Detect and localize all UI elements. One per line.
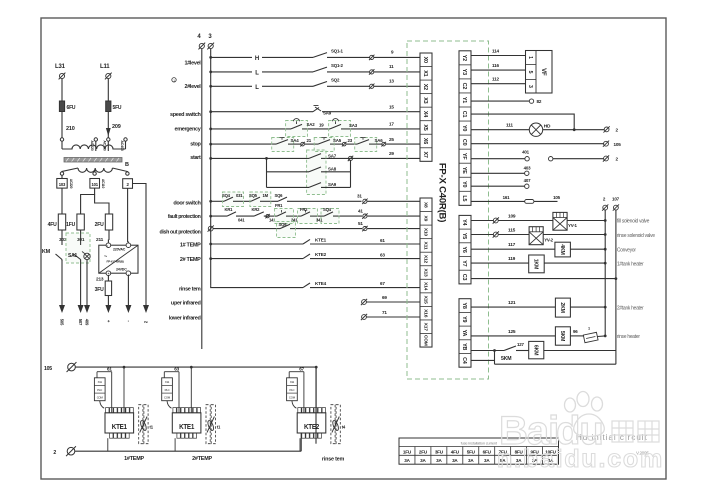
wire rail 105 [75,366,316,368]
svg-text:2#TEMP: 2#TEMP [192,456,212,462]
svg-text:11: 11 [389,64,394,69]
svg-text:21: 21 [307,138,312,143]
wire 6KM to rail 107 [544,350,616,352]
svg-text:23: 23 [348,138,353,143]
svg-text:107: 107 [612,197,620,202]
svg-text:COM: COM [97,396,104,400]
svg-text:X11: X11 [422,242,428,250]
wire row 109 [471,220,493,222]
wire YF row 401 [471,158,525,160]
arrow terminal plus [105,305,111,313]
svg-text:1#tank heater: 1#tank heater [617,261,644,267]
svg-text:25: 25 [389,137,394,142]
wire row KTE4 [211,286,420,288]
wire row lower infrared [366,316,420,318]
arrow terminal 2 [143,305,149,313]
svg-text:rinse heater: rinse heater [617,334,640,340]
svg-text:Y6: Y6 [461,247,467,253]
contact 5KM aux [504,346,516,351]
svg-text:SQ1-1: SQ1-1 [331,49,343,54]
svg-text:6KM: 6KM [532,345,538,355]
svg-text:AC110: AC110 [101,179,105,189]
svg-text:KM: KM [42,249,51,255]
wire row 115 [471,234,493,236]
button SA6 highlight [355,138,377,152]
wire minus to arrow [127,276,129,306]
wire node 303 [61,230,63,245]
svg-text:X15: X15 [422,296,428,305]
wire 116 to VF [471,69,526,71]
wire row KTE2 [209,257,212,260]
svg-text:161: 161 [503,195,510,200]
svg-text:X11: X11 [165,380,170,384]
lamp HD [529,123,542,136]
svg-text:041: 041 [238,218,245,223]
wire 111 lamp row [471,129,529,131]
svg-text:51: 51 [358,221,363,226]
svg-text:YV-1: YV-1 [568,223,577,228]
wire rail drop KTE2 [315,367,317,413]
svg-text:103: 103 [59,182,66,187]
svg-text:L5: L5 [461,195,467,201]
svg-text:X17: X17 [422,323,428,332]
wire KTE2 to rail 2 [299,438,301,451]
svg-text:KTE1: KTE1 [315,238,327,243]
svg-text:X16: X16 [422,309,428,318]
svg-text:X14: X14 [422,282,428,291]
watermark jingyan characters [612,421,659,442]
svg-text:105: 105 [614,142,622,147]
svg-text:220VAC: 220VAC [113,248,126,252]
svg-text:1#level: 1#level [184,60,201,66]
svg-text:door switch: door switch [173,200,201,206]
switch SQ9 [280,224,290,228]
svg-text:61: 61 [107,366,112,371]
svg-text:H: H [255,56,259,62]
svg-text:2#tank heater: 2#tank heater [617,305,644,311]
wire loop left vertical [494,351,496,365]
switch SQ5 door [251,197,260,201]
PLC terminal connector 63 [162,378,173,401]
svg-text:uper infrared: uper infrared [171,300,201,306]
wire 67 hookup [289,371,304,373]
wire node 213 [107,276,109,282]
svg-text:speed switch: speed switch [170,112,201,118]
svg-text:emergency: emergency [174,126,201,132]
svg-text:3A: 3A [436,458,442,463]
svg-text:3FU: 3FU [95,287,104,293]
svg-text:SQ6: SQ6 [275,193,284,198]
svg-text:19: 19 [319,123,324,128]
svg-text:17: 17 [389,122,394,127]
terminal 23 [342,142,347,147]
thermal contact FR1 [277,212,286,216]
svg-text:13: 13 [389,79,394,84]
solenoid valve YV-2 [529,227,543,245]
svg-text:61: 61 [380,238,385,243]
svg-text:2: 2 [53,450,56,456]
svg-text:101: 101 [92,182,99,187]
svg-text:C4: C4 [461,357,467,364]
fuse 6FU [59,101,64,112]
thermistor probe KTE2 [331,405,335,444]
wire row 127 YB [471,350,504,352]
svg-text:407: 407 [524,178,531,183]
svg-text:X12: X12 [422,255,428,264]
wire C0 row 105 [471,143,604,145]
svg-text:3A: 3A [468,458,474,463]
svg-text:n.baidu.com: n.baidu.com [497,445,664,473]
svg-text:114: 114 [492,49,499,54]
terminal 51 [362,226,367,231]
svg-text:507: 507 [78,319,83,326]
switch SQ4 fault [324,212,333,216]
transformer B core [64,158,122,163]
button SA7 [309,154,321,159]
wire KM to arrow 505 [61,260,63,306]
svg-text:X9: X9 [422,216,428,222]
svg-text:L11: L11 [100,64,110,70]
arrow terminal 409 [84,305,90,313]
terminal on bus dish out [208,225,214,231]
svg-text:FP-X C40R(B): FP-X C40R(B) [107,260,124,264]
svg-text:YE: YE [461,167,467,174]
svg-text:Conveyor: Conveyor [617,247,636,253]
terminal mid fault [265,214,269,218]
thermal contact FR2 highlight [298,209,318,224]
svg-text:VF: VF [540,68,546,76]
svg-text:31: 31 [357,194,362,199]
svg-text:4KM: 4KM [559,244,565,254]
svg-text:SQ4: SQ4 [222,193,231,198]
wire row 121 [471,306,555,308]
svg-text:505: 505 [60,319,65,326]
terminal 9 [369,55,374,60]
svg-text:2KM: 2KM [559,302,565,312]
svg-text:KTE1: KTE1 [179,424,195,431]
wire node 209 with arrow [107,112,109,139]
switch SQ6 door [278,197,287,201]
svg-text:SQ5: SQ5 [249,193,258,198]
svg-text:5KM: 5KM [501,356,511,362]
button SA4 highlight [272,138,294,152]
svg-text:1: 1 [527,56,533,59]
svg-text:6FU: 6FU [483,449,492,454]
svg-text:409: 409 [85,319,90,326]
wire node 301 [80,230,82,245]
wire 63 hookup [164,371,179,373]
svg-text:1FU: 1FU [403,449,412,454]
contact KTE4 [303,283,310,288]
wire lamp to terminal 2a [543,129,604,131]
PLC terminal connector 61 [94,378,105,401]
wire row start [209,157,212,160]
svg-text:Y9: Y9 [461,316,467,322]
wire row stop [209,143,212,146]
svg-text:3A: 3A [420,458,426,463]
svg-text:3: 3 [527,85,533,88]
contactor coil 2KM [555,298,570,317]
svg-text:FP-X C40R(B): FP-X C40R(B) [437,163,448,222]
contactor coil 4KM [555,242,571,257]
svg-text:1M: 1M [263,193,269,198]
wire row dish out [213,228,280,230]
svg-text:PLC: PLC [97,388,102,392]
svg-text:2#level: 2#level [184,84,201,90]
svg-text:67: 67 [380,281,385,286]
svg-text:5FU: 5FU [467,449,476,454]
svg-text:X1: X1 [422,70,428,76]
svg-text:3A: 3A [404,458,410,463]
wire rail 2 rise right [300,433,302,451]
svg-text:82: 82 [537,99,542,104]
svg-text:Y0: Y0 [461,181,467,187]
fuse 3FU [105,281,111,296]
terminal Y5 output [493,231,499,237]
wire row H SQ1-1 [209,56,212,59]
thermal contact FR1 highlight [275,209,294,224]
svg-text:5: 5 [527,71,533,74]
svg-text:FR2: FR2 [300,207,308,212]
wire L5 row 161-105 [471,200,525,202]
wire 3FU to arrow plus [107,296,109,306]
thermistor probe KTE1 [139,405,143,444]
svg-text:SQ1-2: SQ1-2 [331,63,343,68]
contact hook 63 [167,401,172,409]
svg-text:X3: X3 [422,97,428,103]
svg-text:SA7: SA7 [328,154,337,159]
wire row emergency [209,127,212,130]
PLC output terminals Y8-C4 [459,299,471,368]
wire rail drop KTE1 [123,367,125,413]
svg-text:L: L [255,85,259,91]
svg-text:PLC: PLC [289,388,294,392]
svg-text:2FU: 2FU [419,449,428,454]
watermark baidu logo text [499,409,603,453]
wire 103 to 4FU [61,175,63,178]
svg-text:fill solenoid valve: fill solenoid valve [617,219,650,225]
contactor coil 1KM [529,255,545,273]
button SA5 [318,140,330,145]
wire row KTE1 [209,243,212,246]
button SA3 highlight [329,121,351,137]
switch SQ9 highlight [277,222,296,238]
svg-text:KTE2: KTE2 [304,424,320,431]
svg-text:PLC: PLC [165,388,170,392]
terminal box 101 AC110 [90,179,100,189]
svg-text:Y2: Y2 [461,55,467,61]
terminal 71 start [361,314,367,320]
svg-text:SA1: SA1 [68,253,78,259]
svg-text:SQ2: SQ2 [331,78,340,83]
svg-text:210: 210 [66,126,75,132]
svg-text:X11: X11 [98,380,103,384]
switch SQ1-1 [313,53,327,58]
svg-text:SA8: SA8 [328,167,337,172]
wire loop bottom [495,363,616,365]
svg-text:YA: YA [461,330,467,337]
svg-text:SQ9: SQ9 [279,222,288,227]
svg-text:3FU: 3FU [435,449,444,454]
terminal 13 [369,84,374,89]
button SA2 [291,124,302,128]
button SA4 [276,140,288,145]
svg-text:2# TEMP: 2# TEMP [180,257,201,263]
wire KTE1 to rail 2 [174,438,176,451]
svg-text:C2: C2 [461,83,467,90]
wire bus 3 [210,49,212,286]
svg-text:X5: X5 [422,124,428,130]
svg-text:rinse tem: rinse tem [322,457,345,463]
svg-text:121: 121 [508,300,516,306]
svg-text:1# TEMP: 1# TEMP [180,242,201,248]
fuse 2FU [105,214,112,230]
wire row L SQ2 [209,85,212,88]
svg-text:1FU: 1FU [66,222,75,228]
wire box2 to PLC supply [127,188,129,242]
fuse 5FU [107,79,109,101]
terminal 105a [603,141,609,147]
wire C1 elbow [471,114,574,130]
svg-text:C1: C1 [461,111,467,118]
svg-text:Y3: Y3 [461,69,467,75]
svg-text:X2: X2 [422,84,428,90]
svg-text:67: 67 [299,366,304,371]
transformer B secondary winding [78,168,112,172]
switch SQ1-2 [313,67,327,72]
button SA3 [330,124,341,128]
svg-text:127: 127 [517,342,524,347]
svg-text:5KM: 5KM [559,331,565,341]
svg-text:1: 1 [588,327,590,331]
selector switch SA9 speed [313,107,321,112]
svg-text:3A: 3A [484,458,490,463]
terminal box 2 [123,179,133,189]
wire branch left [266,158,268,187]
svg-text:63: 63 [174,366,179,371]
svg-text:105: 105 [553,195,560,200]
svg-text:Y1: Y1 [461,97,467,103]
wire rail 2 vertical [604,210,606,336]
svg-text:Y5: Y5 [461,233,467,239]
svg-text:125: 125 [508,329,516,335]
PLC output terminals Y4-C3 [459,215,471,284]
svg-text:2FU: 2FU [95,222,104,228]
wire 115 to rail [543,234,605,236]
wire 119 to rail [544,262,605,264]
wire 112 to VF [471,83,526,85]
svg-text:YB: YB [461,343,467,350]
svg-text:209: 209 [112,124,121,130]
svg-text:KR1: KR1 [225,207,234,212]
svg-text:SA3: SA3 [349,123,358,128]
start branch highlight [307,150,326,195]
wire row L SQ1-2 [209,71,212,74]
svg-text:15: 15 [389,105,394,110]
svg-text:63: 63 [380,253,385,258]
arrow terminal 505 [59,305,65,313]
svg-text:B: B [125,162,129,168]
terminal 11 [369,69,374,74]
svg-text:X11: X11 [290,380,295,384]
contact KTE2 [303,254,310,259]
svg-text:KR2: KR2 [252,207,261,212]
svg-text:KTE1: KTE1 [112,424,128,431]
wire row 119 [471,262,529,264]
svg-text:Y7: Y7 [461,260,467,266]
wire SA9 branch [267,186,310,188]
svg-text:1#TEMP: 1#TEMP [124,456,144,462]
svg-text:SQ4: SQ4 [323,207,332,212]
svg-text:YF: YF [461,153,467,160]
wire rail drop KTE1 [190,367,192,413]
svg-text:stop: stop [190,141,201,147]
fuse 4FU [58,214,65,230]
svg-text:X4: X4 [422,111,428,117]
svg-text:X8: X8 [422,202,428,208]
terminal 2b [603,155,609,161]
svg-text:Y4: Y4 [461,219,467,225]
PLC terminal connector 67 [287,378,298,401]
wire L31 to fuse 6FU [61,79,63,101]
door switches highlight [222,192,243,207]
wire row upper infrared [366,301,420,303]
svg-text:FR1: FR1 [275,203,283,208]
contact hook 67 [292,401,297,409]
wire C4 stub [471,359,495,361]
contactor coil 6KM [516,350,529,352]
row label 2#level [172,78,176,82]
svg-text:109: 109 [508,214,516,220]
wire 109 to rail [567,220,605,222]
arrow terminal 507 [78,305,84,313]
contact SA8 [309,167,321,172]
PLC power supply unit FP-X C40R(B) [99,245,138,273]
svg-text:HD: HD [544,124,551,130]
thermal contact FR2 [301,212,310,216]
switch SA1 highlight [66,233,90,263]
contact SA9 [309,183,321,188]
svg-text:C0: C0 [461,139,467,146]
wire rail 107 vertical [615,210,617,364]
terminal Y4 output [493,217,499,223]
terminal 31 [362,199,367,204]
terminal box 103 AC220 [57,179,67,189]
svg-text:403: 403 [524,165,531,170]
contact KR1 [227,212,236,216]
svg-text:SA6: SA6 [375,138,384,143]
svg-text:71: 71 [382,310,387,315]
button SA6 [357,140,369,145]
wire 101 elbow to 1FU [81,188,95,214]
svg-text:119: 119 [508,256,516,262]
arrow terminal minus [125,305,131,313]
fuse table [399,438,559,464]
button SA5 highlight [314,138,334,152]
svg-text:SA4: SA4 [291,138,300,143]
svg-text:AC220: AC220 [69,179,73,189]
svg-text:COM: COM [289,396,296,400]
PLC output terminals Y2-L5 [459,51,471,206]
wire row 125 [471,335,555,337]
wire branch right [350,161,352,188]
contact KR2 [254,212,264,216]
indicator cross circle [84,253,90,259]
wire indicator to arrow 409 [86,260,88,305]
wire row 117 [471,248,555,250]
svg-text:Y0: Y0 [461,125,467,131]
PLC input terminals X0-X7 [420,53,432,161]
